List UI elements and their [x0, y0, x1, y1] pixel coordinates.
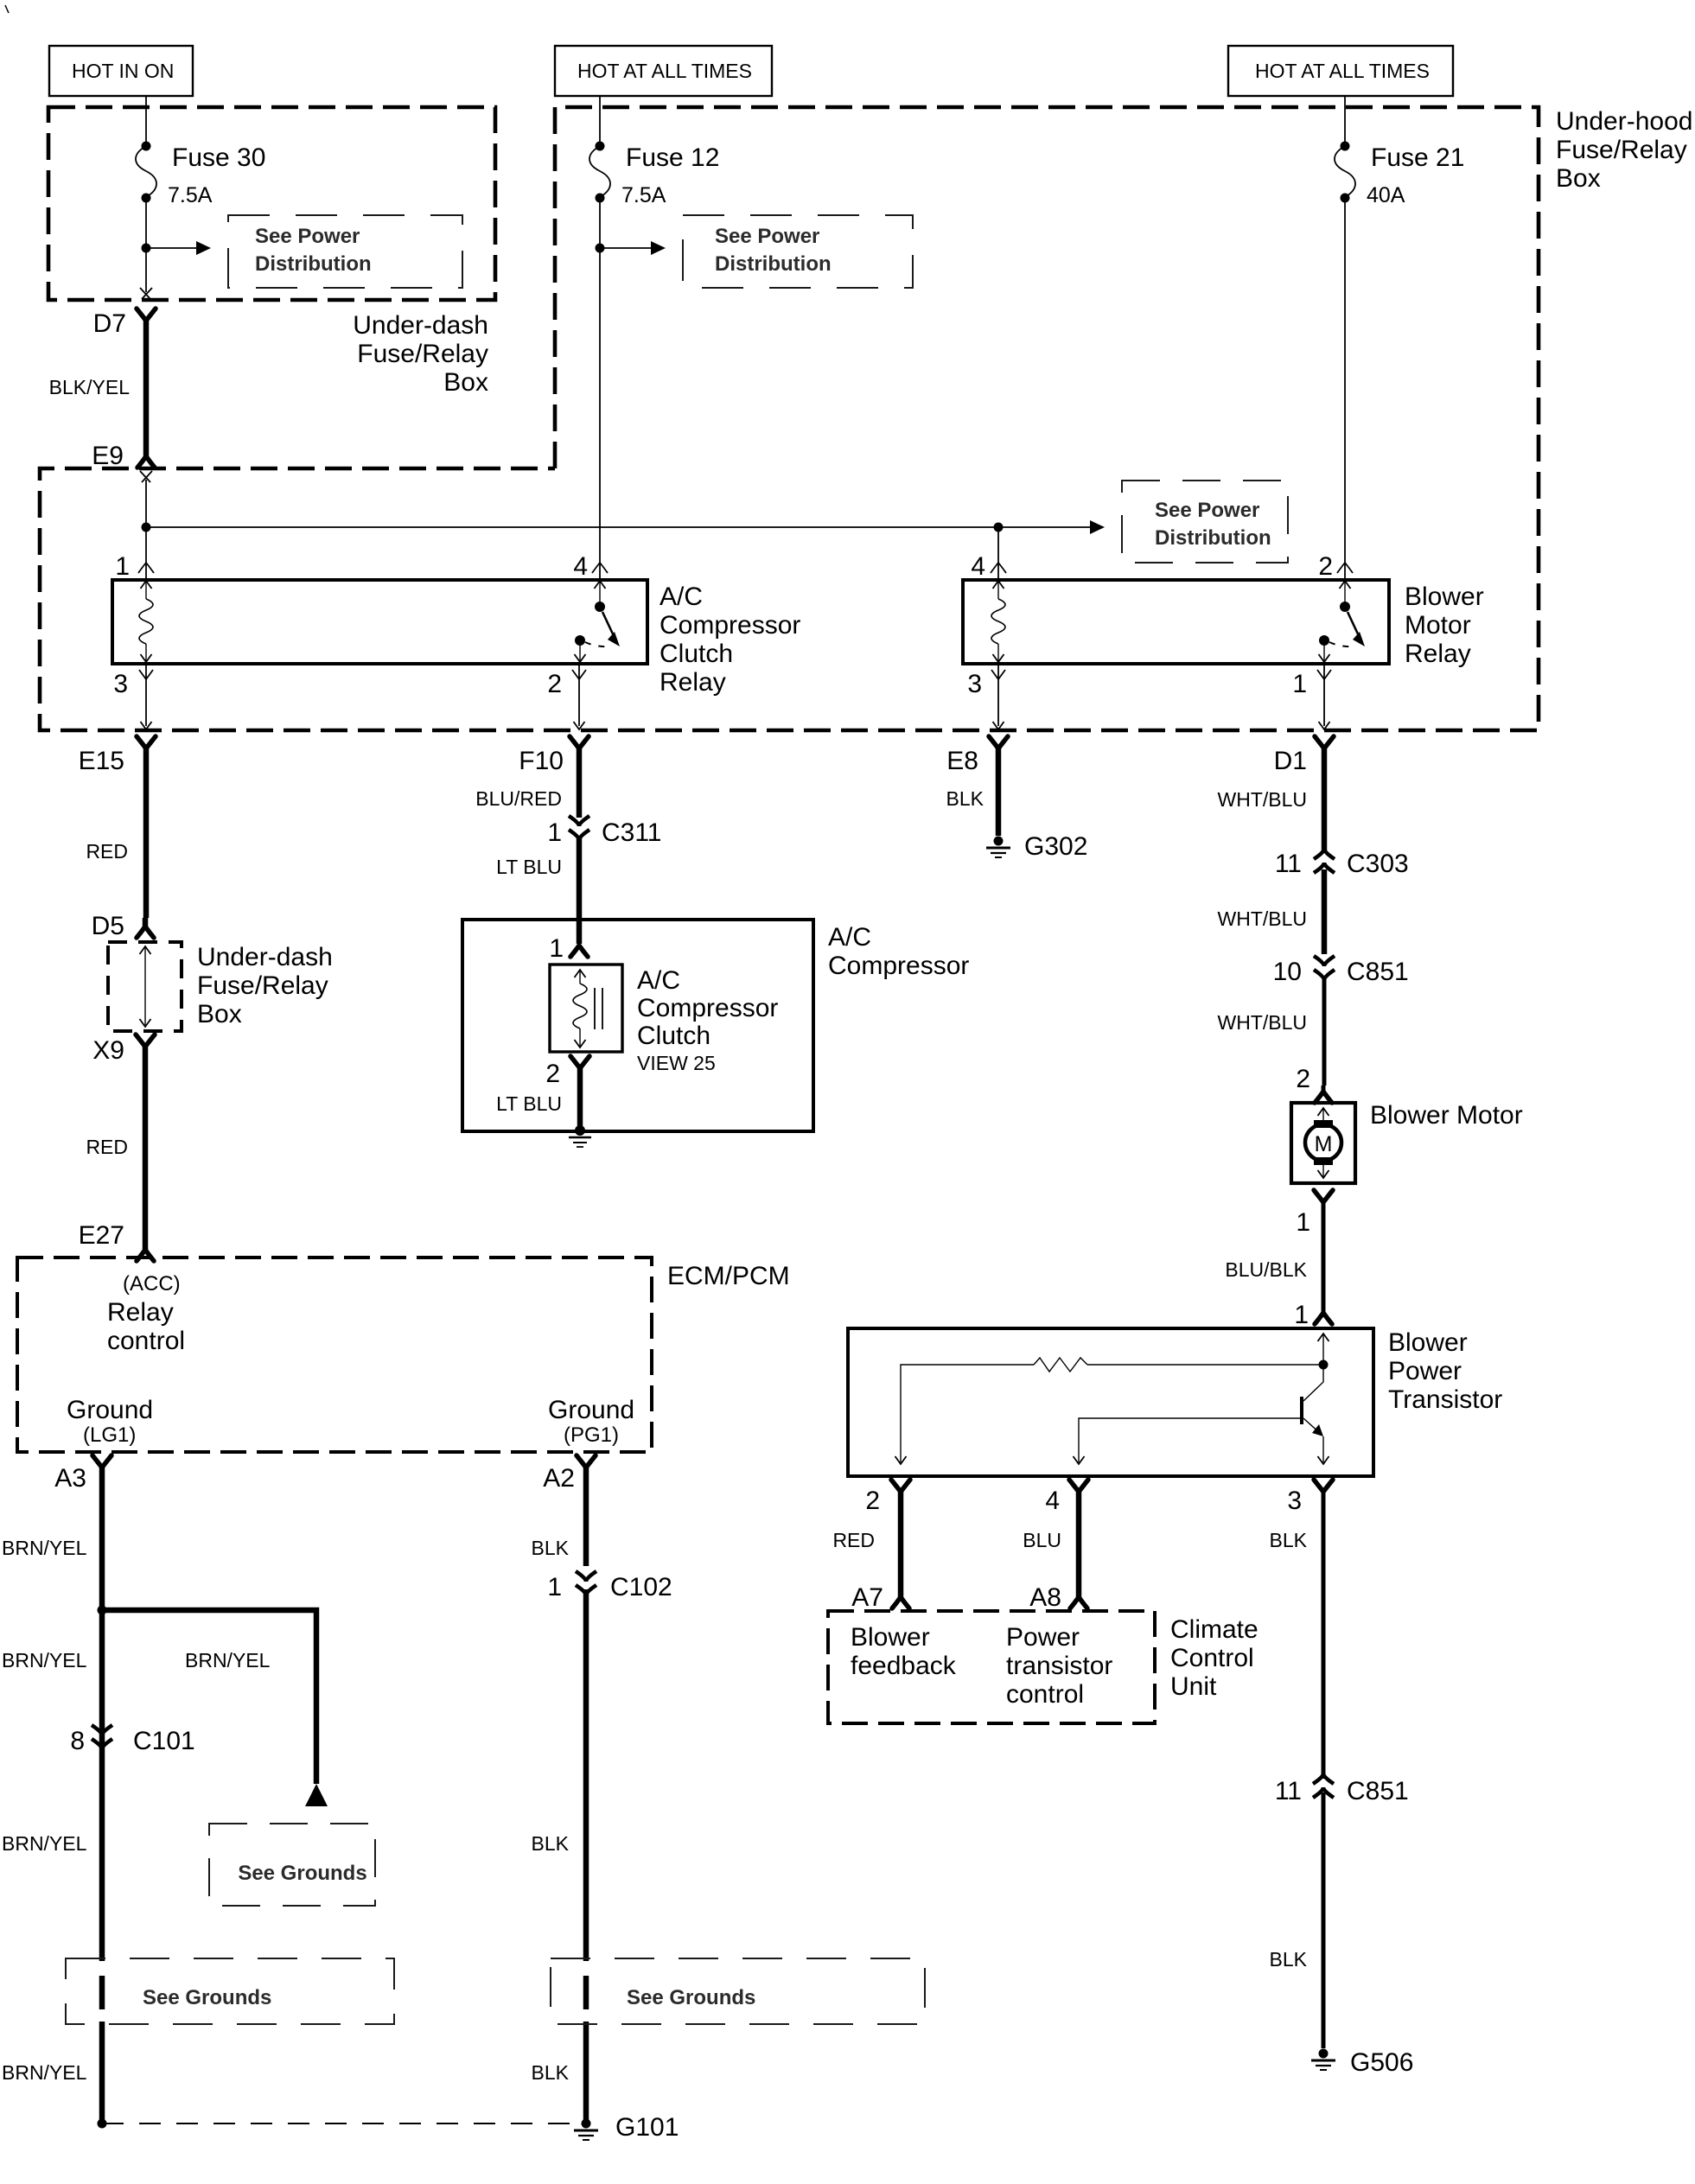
- svg-text:BRN/YEL: BRN/YEL: [2, 1649, 87, 1671]
- under-dash fuse/relay box (small, dashed): [108, 942, 182, 1031]
- wire labels BRN/YEL and BLK row 1: [2, 1537, 570, 1559]
- wire: fuse 21 down to blower relay pin 2: [1344, 198, 1346, 580]
- pin 3 (blower relay): [967, 664, 1005, 729]
- svg-text:Fuse 12: Fuse 12: [626, 143, 719, 172]
- svg-text:Transistor: Transistor: [1388, 1385, 1502, 1414]
- svg-text:1: 1: [547, 818, 562, 847]
- A/C relay coil: [139, 581, 153, 662]
- svg-text:Compressor: Compressor: [660, 611, 800, 640]
- transistor pin 3: [1270, 1480, 1333, 1779]
- wire WHT/BLU to blower motor: [1218, 977, 1325, 1086]
- net line from E9 to blower relay and See Power Distribution: [142, 520, 1106, 580]
- pin 4 (blower relay): [971, 552, 1006, 581]
- svg-text:7.5A: 7.5A: [168, 183, 213, 207]
- compressor case ground: [569, 1125, 591, 1147]
- under-dash fuse/relay box (top-left, dashed): [48, 107, 495, 300]
- svg-text:7.5A: 7.5A: [621, 183, 666, 207]
- svg-text:3: 3: [113, 670, 128, 698]
- label: Blower Power Transistor: [1388, 1328, 1502, 1414]
- svg-text:Blower Motor: Blower Motor: [1370, 1101, 1523, 1130]
- label: A/C Compressor Clutch VIEW 25: [637, 966, 778, 1074]
- svg-text:G101: G101: [615, 2113, 679, 2142]
- fuse 30: [136, 142, 265, 208]
- svg-text:(PG1): (PG1): [564, 1423, 619, 1447]
- svg-text:Power: Power: [1006, 1623, 1080, 1652]
- svg-text:D5: D5: [92, 912, 124, 940]
- svg-text:Unit: Unit: [1170, 1672, 1217, 1701]
- svg-text:10: 10: [1273, 958, 1302, 986]
- svg-text:Compressor: Compressor: [637, 994, 778, 1022]
- svg-text:G302: G302: [1024, 832, 1087, 861]
- svg-text:4: 4: [1045, 1487, 1060, 1515]
- connector C851 pin 10: [1273, 956, 1409, 986]
- svg-text:A/C: A/C: [660, 583, 703, 611]
- connector E27: [79, 1221, 154, 1261]
- pin 3 (A/C relay): [113, 664, 153, 729]
- svg-text:D7: D7: [93, 309, 126, 338]
- svg-text:VIEW 25: VIEW 25: [637, 1052, 716, 1074]
- svg-text:Ground: Ground: [548, 1396, 634, 1424]
- corner artifact: [5, 5, 9, 13]
- label: Ground (PG1): [548, 1396, 634, 1447]
- A/C relay switch: [575, 581, 621, 662]
- svg-text:Relay: Relay: [107, 1298, 174, 1327]
- See Power Distribution note box (left): [228, 215, 462, 288]
- connector C102 pin 1: [547, 1571, 672, 1601]
- svg-text:transistor: transistor: [1006, 1652, 1112, 1680]
- svg-text:A3: A3: [54, 1464, 86, 1493]
- svg-text:Relay: Relay: [660, 668, 726, 697]
- svg-text:(ACC): (ACC): [123, 1272, 181, 1296]
- fuse 12: [589, 142, 719, 208]
- svg-text:WHT/BLU: WHT/BLU: [1218, 1011, 1308, 1034]
- svg-text:D1: D1: [1274, 747, 1307, 775]
- blower relay coil: [991, 581, 1005, 662]
- svg-text:E27: E27: [79, 1221, 124, 1250]
- svg-text:BLU: BLU: [1023, 1529, 1061, 1551]
- svg-text:1: 1: [547, 1573, 562, 1601]
- blower motor: [1291, 1103, 1355, 1183]
- svg-text:See Power: See Power: [715, 225, 819, 248]
- svg-text:RED: RED: [832, 1529, 875, 1551]
- blower power transistor box: [848, 1328, 1373, 1476]
- svg-text:See Power: See Power: [255, 225, 360, 248]
- svg-text:Motor: Motor: [1405, 611, 1471, 640]
- wire gaps where wires pass See Grounds boxes: [98, 1961, 106, 1976]
- junction + branch BRN/YEL: [98, 1606, 328, 1807]
- svg-text:Clutch: Clutch: [637, 1022, 710, 1050]
- See Power Distribution note box (center): [683, 215, 913, 288]
- transistor internals: [895, 1334, 1329, 1464]
- svg-text:1: 1: [1294, 1301, 1309, 1329]
- svg-text:Box: Box: [443, 368, 488, 397]
- svg-text:A8: A8: [1029, 1583, 1061, 1612]
- label: Power transistor control: [1006, 1623, 1112, 1709]
- svg-text:BRN/YEL: BRN/YEL: [2, 1537, 87, 1559]
- wire: HOT IN ON to fuse 30: [145, 96, 147, 145]
- svg-text:4: 4: [971, 552, 985, 581]
- svg-text:Compressor: Compressor: [828, 952, 969, 980]
- svg-text:Fuse/Relay: Fuse/Relay: [1556, 136, 1687, 164]
- svg-text:BLK: BLK: [1270, 1529, 1308, 1551]
- connector X9: [92, 1035, 155, 1241]
- svg-text:2: 2: [1296, 1065, 1310, 1093]
- svg-text:3: 3: [1287, 1487, 1302, 1515]
- arrow to See Power Distribution (center): [596, 241, 666, 255]
- transistor pin 2: [832, 1480, 910, 1598]
- svg-text:2: 2: [865, 1487, 880, 1515]
- svg-text:BLU/RED: BLU/RED: [475, 787, 562, 810]
- svg-text:2: 2: [1318, 552, 1333, 581]
- box: HOT AT ALL TIMES (center): [555, 46, 772, 96]
- svg-text:11: 11: [1275, 1777, 1302, 1805]
- svg-text:A7: A7: [851, 1583, 883, 1612]
- clutch pin 1: [549, 934, 588, 963]
- svg-text:A2: A2: [543, 1464, 575, 1493]
- box: HOT IN ON: [49, 46, 193, 96]
- svg-text:Relay: Relay: [1405, 640, 1471, 668]
- svg-text:HOT IN ON: HOT IN ON: [72, 60, 174, 82]
- label: Under-dash Fuse/Relay Box: [353, 311, 488, 397]
- svg-text:ECM/PCM: ECM/PCM: [667, 1262, 790, 1290]
- svg-text:A/C: A/C: [637, 966, 680, 995]
- blower motor relay box: [963, 580, 1389, 664]
- svg-text:G506: G506: [1350, 2048, 1413, 2077]
- label: (ACC) Relay control: [107, 1272, 185, 1355]
- svg-text:Fuse/Relay: Fuse/Relay: [197, 971, 328, 1000]
- pin 2 (A/C relay): [547, 664, 586, 729]
- connector A3: [54, 1455, 112, 2124]
- blower motor pin 2: [1296, 1065, 1332, 1103]
- svg-text:1: 1: [1292, 670, 1307, 698]
- connector C101 pin 8: [70, 1725, 194, 1755]
- connector A8: [1029, 1583, 1087, 1612]
- svg-text:C851: C851: [1347, 958, 1409, 986]
- svg-text:40A: 40A: [1367, 183, 1405, 207]
- svg-text:E15: E15: [79, 747, 124, 775]
- pin 4 (A/C relay): [573, 552, 608, 581]
- connector A7: [851, 1583, 909, 1612]
- ground G506: [1311, 2048, 1413, 2077]
- svg-text:control: control: [107, 1327, 185, 1355]
- svg-text:2: 2: [547, 670, 562, 698]
- A/C compressor box: [462, 920, 813, 1131]
- label: Climate Control Unit: [1170, 1615, 1259, 1701]
- svg-text:RED: RED: [86, 1136, 128, 1158]
- label: Under-hood Fuse/Relay Box: [1556, 107, 1692, 193]
- blower relay switch: [1319, 581, 1366, 662]
- svg-text:LT BLU: LT BLU: [496, 856, 562, 878]
- svg-text:See Power: See Power: [1155, 499, 1259, 522]
- svg-text:Blower: Blower: [1405, 583, 1484, 611]
- wire: E9 down into under-hood box: [145, 480, 147, 580]
- svg-text:WHT/BLU: WHT/BLU: [1218, 788, 1308, 811]
- svg-text:11: 11: [1275, 850, 1302, 878]
- pin 1 (A/C relay): [115, 552, 154, 581]
- svg-text:Distribution: Distribution: [255, 252, 372, 276]
- connector E15: [79, 736, 156, 918]
- svg-text:C102: C102: [610, 1573, 672, 1601]
- svg-text:Climate: Climate: [1170, 1615, 1259, 1644]
- A/C compressor clutch relay box: [112, 580, 647, 664]
- svg-text:See Grounds: See Grounds: [238, 1862, 366, 1885]
- svg-text:E8: E8: [946, 747, 978, 775]
- svg-text:C101: C101: [133, 1727, 195, 1755]
- ground G101: [98, 2113, 679, 2142]
- svg-text:8: 8: [70, 1727, 85, 1755]
- svg-text:4: 4: [573, 552, 588, 581]
- svg-text:Clutch: Clutch: [660, 640, 733, 668]
- svg-text:RED: RED: [86, 840, 128, 863]
- svg-text:BLK: BLK: [532, 2061, 570, 2084]
- See Grounds note box (lower left): [66, 1958, 394, 2024]
- svg-text:Under-dash: Under-dash: [197, 943, 333, 971]
- svg-text:BLK: BLK: [946, 787, 985, 810]
- svg-text:C303: C303: [1347, 850, 1409, 878]
- svg-text:1: 1: [549, 934, 564, 963]
- svg-text:Distribution: Distribution: [1155, 526, 1271, 550]
- wire: HOT AT ALL TIMES to fuse 12: [599, 96, 601, 145]
- ground G302: [986, 832, 1087, 861]
- svg-text:E9: E9: [92, 442, 124, 470]
- svg-text:Fuse 30: Fuse 30: [172, 143, 265, 172]
- svg-text:C851: C851: [1347, 1777, 1409, 1805]
- svg-text:Under-hood: Under-hood: [1556, 107, 1692, 136]
- transistor pin 1: [1294, 1301, 1332, 1329]
- arrow to See Power Distribution (left): [142, 241, 212, 255]
- A/C compressor clutch sub-box: [550, 965, 622, 1052]
- label: Blower Motor Relay: [1405, 583, 1484, 668]
- wire: fuse 30 down to D7: [145, 198, 147, 292]
- under-hood fuse/relay box (dashed L-shape): [40, 107, 1539, 730]
- svg-text:HOT AT ALL TIMES: HOT AT ALL TIMES: [1255, 60, 1430, 82]
- svg-text:Box: Box: [1556, 164, 1601, 193]
- box: HOT AT ALL TIMES (right): [1228, 46, 1453, 96]
- svg-text:(LG1): (LG1): [83, 1423, 136, 1447]
- svg-text:See Grounds: See Grounds: [627, 1986, 755, 2009]
- pin 1 (blower relay): [1292, 664, 1331, 729]
- label: A/C Compressor Clutch Relay: [660, 583, 800, 697]
- svg-text:3: 3: [967, 670, 982, 698]
- connector D7: [93, 288, 156, 338]
- ECM/PCM box (dashed): [17, 1258, 652, 1452]
- svg-text:Under-dash: Under-dash: [353, 311, 488, 340]
- connector C851 pin 11 (lower): [1275, 1773, 1409, 1805]
- label: Ground (LG1): [67, 1396, 153, 1447]
- svg-text:Fuse/Relay: Fuse/Relay: [357, 340, 488, 368]
- connector E8: [946, 736, 1008, 836]
- svg-text:BLK: BLK: [532, 1537, 570, 1559]
- clutch pin 2: [496, 1056, 589, 1131]
- svg-text:M: M: [1315, 1132, 1333, 1156]
- wire BLK below C102: [532, 1589, 586, 2124]
- svg-text:feedback: feedback: [851, 1652, 957, 1680]
- svg-text:1: 1: [115, 552, 130, 581]
- connector D5: [92, 912, 154, 940]
- svg-text:F10: F10: [519, 747, 564, 775]
- See Power Distribution note box (middle right): [1122, 481, 1288, 563]
- connector F10: [519, 736, 589, 818]
- connector D1: [1218, 736, 1335, 852]
- wire: HOT AT ALL TIMES to fuse 21: [1344, 96, 1346, 145]
- See Grounds note box (upper): [209, 1824, 375, 1906]
- svg-text:BLK/YEL: BLK/YEL: [49, 376, 131, 398]
- label: A/C Compressor: [828, 923, 969, 980]
- climate control unit box: [828, 1611, 1155, 1723]
- svg-text:Distribution: Distribution: [715, 252, 832, 276]
- svg-text:BRN/YEL: BRN/YEL: [185, 1649, 271, 1671]
- wire WHT/BLU: [1218, 869, 1325, 954]
- svg-text:BLU/BLK: BLU/BLK: [1225, 1258, 1307, 1281]
- svg-text:Control: Control: [1170, 1644, 1254, 1672]
- connector C311 pin 1: [547, 816, 661, 847]
- svg-text:BLK: BLK: [1270, 1948, 1308, 1971]
- blower motor pin 1: [1225, 1190, 1333, 1313]
- svg-text:X9: X9: [92, 1036, 124, 1065]
- svg-text:2: 2: [545, 1060, 560, 1088]
- wire LT BLU to compressor: [496, 837, 579, 944]
- svg-text:BRN/YEL: BRN/YEL: [2, 2061, 87, 2084]
- wire labels BRN/YEL row 2: [2, 1649, 271, 1671]
- fuse 21: [1335, 142, 1464, 208]
- svg-text:BLK: BLK: [532, 1832, 570, 1855]
- transistor pin 4: [1023, 1480, 1088, 1598]
- svg-text:C311: C311: [602, 818, 662, 847]
- svg-text:Ground: Ground: [67, 1396, 153, 1424]
- See Grounds note box (lower middle): [551, 1958, 925, 2024]
- connector C303 pin 11: [1275, 849, 1409, 878]
- svg-text:Blower: Blower: [851, 1623, 930, 1652]
- svg-text:control: control: [1006, 1680, 1084, 1709]
- connector E9: [92, 442, 155, 482]
- svg-text:Fuse 21: Fuse 21: [1371, 143, 1464, 172]
- svg-text:WHT/BLU: WHT/BLU: [1218, 907, 1308, 930]
- svg-text:Blower: Blower: [1388, 1328, 1468, 1357]
- label: Blower feedback: [851, 1623, 957, 1680]
- svg-text:See Grounds: See Grounds: [143, 1986, 271, 2009]
- svg-text:LT BLU: LT BLU: [496, 1092, 562, 1115]
- svg-text:HOT AT ALL TIMES: HOT AT ALL TIMES: [577, 60, 752, 82]
- connector A2: [543, 1455, 596, 1566]
- svg-text:1: 1: [1296, 1208, 1310, 1237]
- svg-text:Box: Box: [197, 1000, 242, 1028]
- svg-text:A/C: A/C: [828, 923, 871, 952]
- label: Under-dash Fuse/Relay Box (small): [197, 943, 333, 1028]
- svg-text:Power: Power: [1388, 1357, 1462, 1385]
- wire BLK to G506: [1270, 1792, 1323, 2048]
- svg-text:BRN/YEL: BRN/YEL: [2, 1832, 87, 1855]
- wire BLK/YEL D7 to E9 (thick): [143, 318, 150, 456]
- pin 2 (blower relay): [1318, 552, 1353, 581]
- wire: fuse 12 down to A/C relay pin 4: [599, 198, 601, 580]
